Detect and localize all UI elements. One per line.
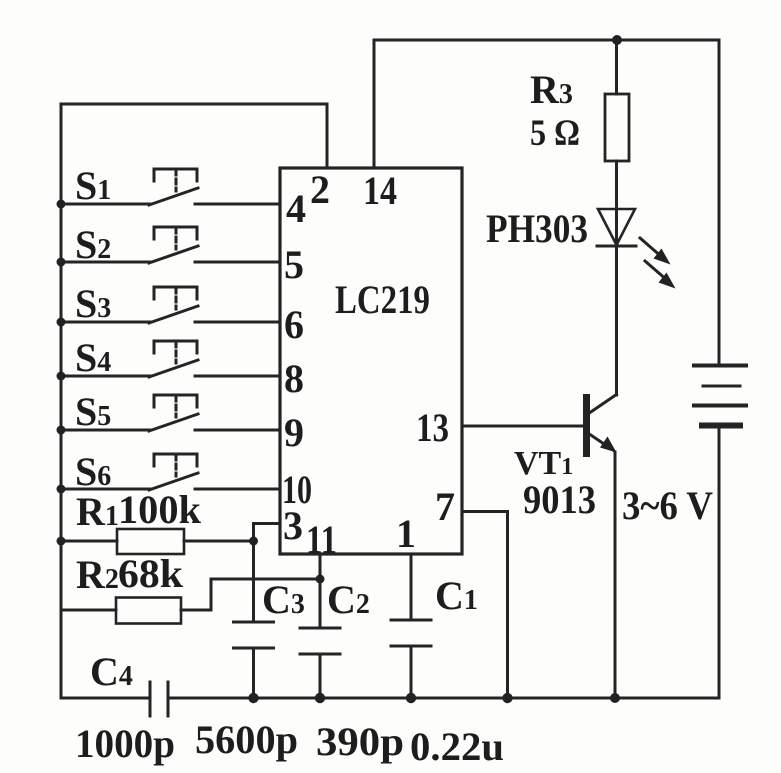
svg-text:68k: 68k (118, 551, 184, 596)
svg-text:9: 9 (284, 410, 304, 455)
svg-text:7: 7 (435, 484, 455, 529)
svg-text:2: 2 (310, 167, 330, 212)
svg-text:5600p: 5600p (195, 717, 298, 762)
svg-text:14: 14 (363, 168, 397, 213)
svg-text:390p: 390p (316, 719, 404, 764)
svg-text:11: 11 (306, 517, 337, 562)
svg-text:6: 6 (284, 302, 304, 347)
svg-text:100k: 100k (118, 487, 202, 532)
svg-text:1: 1 (396, 511, 416, 556)
svg-text:0.22u: 0.22u (410, 724, 504, 769)
svg-text:1000p: 1000p (75, 721, 175, 766)
svg-text:PH303: PH303 (486, 206, 588, 251)
svg-text:5: 5 (284, 242, 304, 287)
svg-text:3~6 V: 3~6 V (622, 483, 713, 528)
svg-text:5 Ω: 5 Ω (530, 113, 580, 154)
svg-text:13: 13 (416, 405, 449, 450)
svg-text:3: 3 (283, 503, 303, 548)
svg-text:4: 4 (286, 186, 306, 231)
svg-text:LC219: LC219 (335, 277, 430, 322)
svg-text:8: 8 (284, 356, 304, 401)
svg-text:9013: 9013 (523, 477, 596, 522)
